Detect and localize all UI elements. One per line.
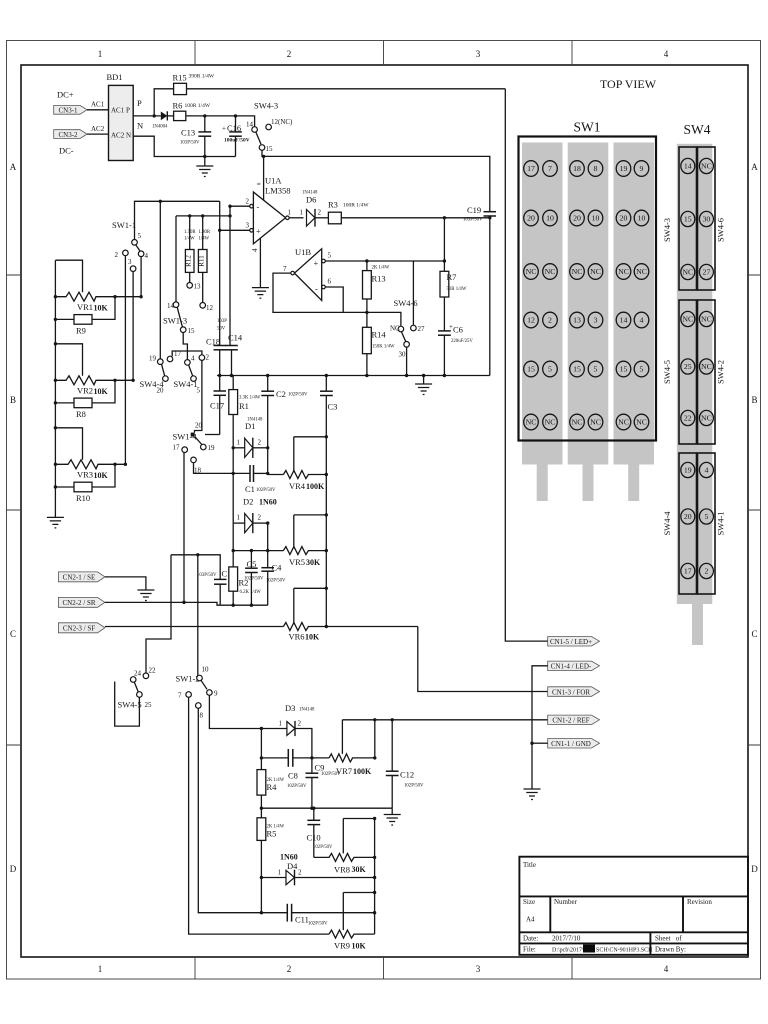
junction R11 top (201, 214, 204, 217)
potentiometer VR1 (55, 292, 141, 301)
junction VR7 riser right (373, 718, 376, 721)
svg-text:102P/50V: 102P/50V (244, 577, 264, 582)
wire pin3 vertical to C18 (219, 201, 221, 345)
connector SW1 gray column 2 (568, 143, 609, 465)
svg-text:4: 4 (145, 252, 149, 260)
svg-text:24: 24 (134, 670, 142, 678)
svg-text:13: 13 (573, 316, 581, 325)
svg-text:NC: NC (618, 267, 629, 276)
svg-text:1: 1 (98, 49, 103, 59)
svg-text:A: A (10, 162, 17, 172)
SW1 pin NC (616, 414, 631, 430)
svg-text:SW4-1: SW4-1 (716, 511, 726, 535)
junction rail C18 (218, 374, 221, 377)
svg-text:Revision: Revision (687, 898, 712, 906)
svg-text:SW4: SW4 (684, 122, 711, 137)
capacitor C3 (320, 376, 333, 627)
svg-text:30: 30 (703, 215, 711, 224)
svg-text:+: + (222, 125, 226, 133)
svg-text:R5: R5 (267, 829, 277, 839)
wire U1A pin3 input (220, 229, 250, 231)
wire pin8 to C11 (198, 708, 287, 912)
svg-text:AC2: AC2 (111, 132, 125, 140)
op-amp U1B (294, 249, 321, 301)
svg-text:4: 4 (640, 316, 644, 325)
svg-text:3: 3 (594, 316, 598, 325)
svg-text:R12: R12 (185, 255, 193, 267)
svg-text:CN1-5 / LED+: CN1-5 / LED+ (550, 638, 592, 646)
svg-text:C16: C16 (227, 123, 241, 133)
title block row lines (519, 896, 748, 943)
svg-text:NC: NC (701, 362, 712, 371)
svg-text:C1: C1 (245, 484, 255, 494)
capacitor C18 (214, 346, 227, 376)
switch SW1-4 pin 19 (201, 444, 207, 450)
ground CN1 (524, 789, 541, 800)
SW1 pin 3 (588, 312, 603, 328)
svg-text:30: 30 (399, 351, 407, 359)
SW1 pin 20 (524, 210, 539, 226)
svg-text:1N4148: 1N4148 (302, 191, 318, 196)
junction VR6 loop (325, 587, 328, 590)
switch SW4-4 blade (162, 364, 165, 376)
svg-text:P: P (126, 107, 130, 115)
svg-text:19: 19 (620, 164, 628, 173)
svg-text:CN3-2: CN3-2 (58, 131, 78, 139)
svg-text:6: 6 (328, 278, 332, 286)
svg-text:NC: NC (636, 418, 647, 427)
junction VR1 pin4 (139, 295, 142, 298)
SW4 pin 15 (681, 211, 695, 226)
svg-text:20: 20 (620, 214, 628, 223)
resistor R3 (328, 212, 341, 224)
border column tick marks bottom (195, 957, 572, 979)
svg-text:8: 8 (200, 712, 204, 720)
svg-text:+: + (314, 258, 319, 268)
svg-text:C: C (751, 629, 757, 639)
wire U1B pin5 (322, 259, 326, 263)
SW4 group SW4-4/SW4-1 boxes (679, 453, 697, 594)
resistor R14 (363, 327, 372, 375)
junction C11 bus (260, 911, 263, 914)
switch SW4-5 pin 25 (137, 692, 143, 698)
ground bottom rail (384, 815, 401, 826)
SW1 pin 12 (524, 312, 539, 328)
wire P output (133, 115, 161, 117)
junction rail C10 (312, 807, 315, 810)
resistor R7 (440, 218, 449, 297)
junction block bottom R2 (232, 604, 235, 607)
junction C13 top (203, 114, 206, 117)
SW1 pin 9 (634, 161, 649, 177)
svg-text:NC: NC (526, 418, 537, 427)
svg-text:102P/50V: 102P/50V (313, 845, 333, 850)
svg-text:NC: NC (390, 325, 400, 333)
wire pin7 to VR9 (189, 697, 329, 934)
svg-text:27: 27 (418, 325, 426, 333)
pin circle 12 (200, 303, 206, 309)
svg-text:NC: NC (590, 267, 601, 276)
bridge rectifier BD1 (109, 85, 134, 160)
svg-text:SW4-3: SW4-3 (662, 218, 672, 242)
switch SW4-3 pin 14 (252, 127, 258, 133)
connector flag CN2-3 / SF (58, 623, 105, 633)
switch SW4-6 pin NC (398, 326, 404, 332)
svg-text:TOP VIEW: TOP VIEW (600, 77, 657, 91)
svg-text:4: 4 (191, 355, 195, 363)
switch SW4-4 pin 20 (163, 376, 169, 382)
wire pin19 riser to pin3 net (159, 201, 161, 359)
switch SW1-2 pin 7 (186, 692, 192, 698)
junction D2 in leg on VR5 row (232, 549, 235, 552)
junction rail C14 (230, 374, 233, 377)
resistor R11 (198, 216, 207, 303)
junction R13 top (365, 259, 368, 262)
junction D2 out (266, 521, 269, 524)
wire D2 out to VR5 (267, 523, 269, 551)
wire CN1-4 to ground riser (532, 666, 548, 789)
junction VR8 right (373, 856, 376, 859)
wire P to R15 (154, 89, 173, 116)
wire CN2-1 to ground (105, 577, 146, 590)
junction P/R15 (153, 114, 156, 117)
resistor network top wire (176, 215, 230, 217)
svg-text:103P/50V: 103P/50V (197, 573, 217, 578)
SW4 pin 19 (681, 462, 695, 477)
pin circle 13 (187, 283, 193, 289)
svg-text:1: 1 (237, 514, 241, 522)
resistor R5 (257, 818, 266, 841)
potentiometer VR3 (55, 460, 125, 469)
svg-text:C14: C14 (228, 333, 243, 343)
connector flag CN1-2 / REF (548, 715, 600, 725)
svg-text:SCH\CN-901HP3.SCH: SCH\CN-901HP3.SCH (596, 948, 653, 954)
SW1 pin 15 (616, 361, 631, 377)
svg-text:CN2-1 / SE: CN2-1 / SE (63, 574, 96, 582)
svg-text:NC: NC (701, 315, 712, 324)
svg-text:17: 17 (527, 164, 535, 173)
resistor R15 (174, 83, 187, 94)
svg-text:5: 5 (548, 365, 552, 374)
wire bus below D3 (260, 729, 262, 913)
svg-text:+: + (256, 226, 261, 236)
junction D1 in (232, 446, 235, 449)
wire SW4-5 pin25 return (115, 682, 140, 727)
switch SW1-3 pin 15 (180, 327, 186, 333)
connector flag CN3-1 (54, 105, 87, 114)
potentiometer VR5 wiper loop (294, 515, 327, 547)
SW1 pin NC (616, 264, 631, 280)
svg-text:3.3K 1/4W: 3.3K 1/4W (239, 396, 261, 401)
svg-text:R10: R10 (76, 493, 90, 503)
svg-text:12: 12 (206, 304, 214, 312)
potentiometer VR2 (55, 376, 133, 385)
left divider bus (54, 260, 56, 517)
svg-text:VR1: VR1 (77, 302, 93, 312)
switch SW4-5 pin 24 (130, 677, 136, 683)
svg-text:A4: A4 (526, 916, 535, 924)
svg-text:R11: R11 (198, 255, 206, 267)
svg-text:15: 15 (266, 145, 274, 153)
junction VR4 right (325, 473, 328, 476)
svg-text:15: 15 (620, 365, 628, 374)
switch SW1-1 pin 4 (138, 251, 144, 257)
svg-text:Drawn By:: Drawn By: (655, 946, 686, 954)
svg-text:R14: R14 (372, 330, 387, 340)
junction R9 riser on VR1 row (113, 295, 116, 298)
svg-text:Number: Number (554, 898, 578, 906)
svg-text:19: 19 (208, 444, 216, 452)
wire N to ground rail (133, 136, 235, 156)
wire CN2-3 to VR6 (105, 626, 284, 628)
svg-text:NC: NC (701, 162, 712, 171)
wire U1A pin4 to ground (259, 238, 261, 287)
capacitor C1 parallel (233, 448, 268, 482)
svg-text:20: 20 (527, 214, 535, 223)
svg-text:D: D (10, 864, 17, 874)
junction R7 top (443, 216, 446, 219)
switch SW1-1 blade (136, 245, 141, 251)
svg-text:100uF/50V: 100uF/50V (224, 138, 250, 144)
wire pin5 to SW4-6 pin27 (412, 261, 414, 325)
SW4 pin 30 (699, 211, 713, 226)
svg-text:7: 7 (548, 164, 552, 173)
svg-text:LM358: LM358 (265, 186, 291, 196)
junction C4 top on VR5 row (266, 549, 269, 552)
svg-text:51R 1/4W: 51R 1/4W (447, 287, 467, 292)
SW4 pin NC (681, 311, 695, 326)
svg-text:102P/50V: 102P/50V (256, 488, 276, 493)
svg-text:9: 9 (640, 164, 644, 173)
SW1 pin 15 (524, 361, 539, 377)
svg-text:14: 14 (246, 121, 254, 129)
ground analog rail (415, 384, 432, 395)
connector flag CN3-2 (54, 130, 87, 139)
svg-text:18: 18 (573, 164, 581, 173)
wire R6 to SW4-3 pin 14 (186, 116, 255, 127)
svg-text:20: 20 (573, 214, 581, 223)
junction rail C2 (266, 374, 269, 377)
capacitor C9 (306, 758, 319, 808)
svg-text:1/4W: 1/4W (199, 237, 210, 242)
wire rail ground stub bottom (391, 808, 393, 814)
wire pin15 down to pin4 circle (183, 333, 187, 352)
junction D3 input bus (260, 727, 263, 730)
SW1 pin 14 (616, 312, 631, 328)
svg-text:VR7: VR7 (336, 766, 352, 776)
svg-text:File:: File: (523, 946, 536, 954)
junction rail bus (260, 807, 263, 810)
diode 1N4004 (161, 111, 168, 120)
svg-text:10K: 10K (94, 387, 109, 396)
svg-text:2: 2 (287, 49, 292, 59)
svg-text:22: 22 (684, 414, 692, 423)
wire ground stub power (204, 157, 206, 167)
svg-text:C13: C13 (181, 128, 195, 138)
switch SW1-1 pin 3 (130, 266, 136, 272)
svg-text:D6: D6 (306, 195, 316, 205)
svg-text:CN1-1 / GND: CN1-1 / GND (551, 740, 591, 748)
resistor R9 (55, 297, 115, 325)
SW1 pin NC (543, 264, 558, 280)
svg-text:-: - (315, 284, 318, 294)
svg-text:102P/50V: 102P/50V (308, 922, 328, 927)
resistor R1 (229, 376, 238, 448)
switch SW4-1 blade (189, 365, 193, 376)
border column tick marks top (195, 41, 572, 66)
svg-text:15: 15 (573, 365, 581, 374)
potentiometer VR9 wiper loop (343, 893, 374, 931)
wire pin2 to divider taps (124, 256, 126, 465)
svg-text:103P/50V: 103P/50V (180, 141, 200, 146)
svg-text:7: 7 (283, 265, 287, 273)
svg-text:D1: D1 (245, 421, 255, 431)
SW1 pin 5 (634, 361, 649, 377)
svg-text:22: 22 (149, 667, 157, 675)
switch SW4-6 blade (402, 332, 406, 342)
svg-text:NC: NC (572, 418, 583, 427)
SW1 pin 20 (570, 210, 585, 226)
SW1 pin 18 (570, 161, 585, 177)
svg-text:17: 17 (174, 350, 182, 358)
junction VR4 loop (325, 435, 328, 438)
border row tick marks left (7, 275, 22, 745)
svg-text:R8: R8 (76, 409, 86, 419)
capacitor C19 (484, 212, 497, 218)
wire VR8 right riser (374, 819, 376, 935)
svg-text:NC: NC (636, 267, 647, 276)
junction pin2 wire (228, 205, 231, 208)
diode D3 (287, 721, 312, 758)
wire AC1 (87, 109, 109, 111)
switch SW1-2 pin 10 (197, 675, 203, 681)
svg-text:1: 1 (288, 209, 292, 217)
wire D1 out to VR4 (268, 473, 284, 474)
wire U1A pin8 supply (263, 156, 265, 200)
svg-text:17: 17 (684, 567, 692, 576)
wire SW4-3 pin15 to C19 (262, 150, 490, 211)
wire VR6 to CN1-3 / FOR (418, 627, 548, 692)
svg-text:2: 2 (298, 869, 302, 877)
svg-text:20: 20 (684, 512, 692, 521)
svg-text:VR6: VR6 (289, 632, 305, 642)
connector flag CN2-1 / SE (58, 572, 105, 582)
svg-text:NC: NC (545, 267, 556, 276)
resistor R2 (229, 523, 238, 605)
resistor R10 (55, 464, 115, 492)
junction VR5 right (325, 549, 328, 552)
svg-text:15: 15 (684, 215, 692, 224)
switch SW1-4 pin 17 (182, 447, 188, 453)
svg-text:6.2K 1/4W: 6.2K 1/4W (240, 590, 262, 595)
wire LED+ supply vertical (505, 89, 547, 641)
junction C16 top (234, 114, 237, 117)
connector SW1 gray column 3 (614, 143, 655, 465)
resistor R8 (55, 380, 115, 407)
svg-text:10K: 10K (94, 304, 109, 313)
svg-text:20: 20 (195, 422, 203, 430)
SW1 pin NC (570, 264, 585, 280)
svg-text:R4: R4 (267, 782, 278, 792)
SW4 pin 25 (681, 359, 695, 374)
ground left bus (47, 517, 64, 528)
capacitor C11 series (287, 904, 374, 922)
wire pin10 riser to snubber block (194, 463, 234, 474)
diode D4 (261, 870, 374, 886)
svg-text:BD1: BD1 (107, 72, 123, 82)
svg-text:VR3: VR3 (77, 470, 93, 480)
svg-text:SW4-3: SW4-3 (254, 101, 278, 111)
svg-text:VR5: VR5 (289, 557, 305, 567)
switch SW4-3 blade (256, 132, 261, 144)
resistor R6 (174, 111, 186, 120)
potentiometer VR5 (283, 547, 326, 555)
SW4 pin NC (699, 311, 713, 326)
svg-text:2: 2 (258, 514, 262, 522)
junction VR3 bus (54, 463, 57, 466)
svg-text:C5: C5 (247, 559, 257, 569)
svg-text:102P/50V: 102P/50V (288, 393, 308, 398)
svg-text:14: 14 (167, 302, 175, 310)
potentiometer VR3 wiper loop (55, 428, 82, 460)
junction rail R14 (365, 374, 368, 377)
svg-text:2017/7/10: 2017/7/10 (552, 935, 581, 943)
SW1 pin 13 (570, 312, 585, 328)
svg-text:103P: 103P (217, 319, 227, 324)
connector flag CN2-2 / SR (58, 597, 105, 607)
junction C19 bottom node (488, 216, 491, 219)
title block column lines (550, 896, 683, 954)
wire line B to C15 (171, 555, 220, 579)
svg-text:SW4-2: SW4-2 (716, 360, 726, 384)
SW1 pin NC (543, 414, 558, 430)
svg-text:27: 27 (703, 268, 711, 277)
svg-text:2: 2 (318, 209, 322, 217)
SW4 pin 5 (699, 509, 713, 524)
junction C5 on VR5 row (250, 549, 253, 552)
svg-text:14: 14 (620, 316, 628, 325)
svg-text:3: 3 (476, 964, 481, 974)
svg-text:C8: C8 (288, 771, 298, 781)
svg-text:D:\pcb\2017\: D:\pcb\2017\ (552, 948, 584, 954)
svg-text:17: 17 (173, 444, 181, 452)
svg-text:AC1: AC1 (111, 107, 125, 115)
svg-text:10: 10 (202, 666, 210, 674)
diode D2 (233, 473, 268, 533)
wire line B to SW4-5 pin 22 (146, 555, 171, 673)
svg-text:3: 3 (246, 222, 250, 230)
svg-text:5: 5 (594, 365, 598, 374)
svg-text:B: B (751, 395, 757, 405)
potentiometer VR8 (314, 853, 375, 861)
svg-text:DC-: DC- (59, 146, 74, 156)
potentiometer VR1 wiper loop (55, 260, 82, 292)
junction VR1 bus (54, 295, 57, 298)
capacitor C17 (214, 376, 227, 435)
SW4 pin 22 (681, 410, 695, 425)
SW1 pin NC (588, 264, 603, 280)
junction VR5 loop (325, 513, 328, 516)
svg-text:5: 5 (138, 232, 142, 240)
svg-text:100R 1/4W: 100R 1/4W (185, 103, 211, 109)
potentiometer VR4 (283, 471, 326, 479)
svg-text:C17: C17 (210, 401, 224, 411)
wire C19 down to analog rail (489, 218, 491, 376)
SW1 pin 15 (570, 361, 585, 377)
svg-text:5: 5 (704, 512, 708, 521)
svg-text:1: 1 (300, 209, 304, 217)
diode D6 (307, 209, 329, 227)
